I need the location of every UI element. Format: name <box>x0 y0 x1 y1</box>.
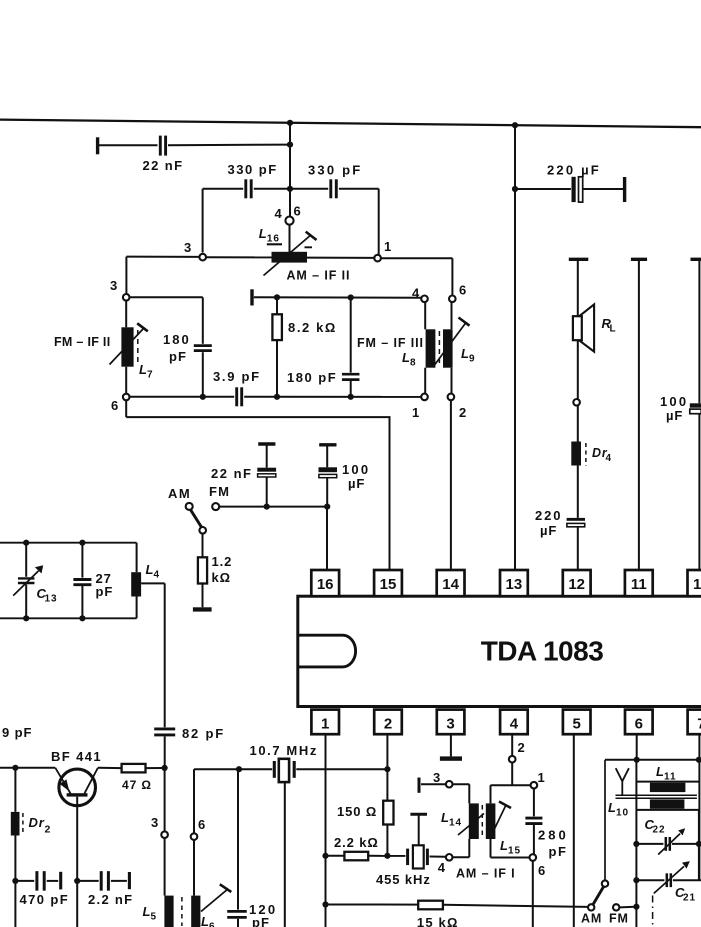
svg-text:BF 441: BF 441 <box>51 749 102 764</box>
svg-text:3.9 pF: 3.9 pF <box>213 369 261 384</box>
svg-text:6: 6 <box>198 817 206 832</box>
svg-text:3: 3 <box>151 815 159 830</box>
svg-text:21: 21 <box>683 893 696 904</box>
svg-text:100: 100 <box>342 462 370 477</box>
svg-text:150 Ω: 150 Ω <box>337 804 377 819</box>
svg-text:14: 14 <box>449 818 462 829</box>
svg-text:15 kΩ: 15 kΩ <box>417 915 459 927</box>
svg-text:9 pF: 9 pF <box>2 725 32 740</box>
svg-text:L: L <box>610 324 617 335</box>
svg-text:pF: pF <box>549 844 568 859</box>
svg-text:5: 5 <box>151 912 157 923</box>
svg-text:15: 15 <box>508 846 521 857</box>
svg-text:6: 6 <box>111 398 119 413</box>
svg-text:280: 280 <box>538 828 569 843</box>
svg-text:µF: µF <box>540 523 557 538</box>
svg-text:FM: FM <box>609 912 629 926</box>
svg-text:330 pF: 330 pF <box>308 163 362 178</box>
svg-text:11: 11 <box>664 772 676 783</box>
svg-text:2: 2 <box>518 740 526 755</box>
svg-text:3: 3 <box>110 278 118 293</box>
svg-text:4: 4 <box>154 570 160 581</box>
svg-text:2.2 nF: 2.2 nF <box>88 892 133 907</box>
svg-text:6: 6 <box>209 922 215 927</box>
svg-text:180 pF: 180 pF <box>287 370 337 385</box>
svg-text:6: 6 <box>538 863 546 878</box>
svg-text:2: 2 <box>459 405 467 420</box>
svg-text:8.2 kΩ: 8.2 kΩ <box>288 320 337 335</box>
svg-text:AM: AM <box>168 486 191 501</box>
svg-text:pF: pF <box>169 349 187 364</box>
svg-text:22: 22 <box>653 825 666 836</box>
svg-text:6: 6 <box>294 204 302 219</box>
svg-text:10: 10 <box>616 808 629 819</box>
svg-text:7: 7 <box>697 716 701 733</box>
svg-text:100: 100 <box>660 394 688 409</box>
svg-text:180: 180 <box>163 332 191 347</box>
svg-text:4: 4 <box>606 453 612 464</box>
svg-text:3: 3 <box>184 240 192 255</box>
svg-text:1: 1 <box>321 716 329 733</box>
svg-text:13: 13 <box>506 576 523 593</box>
svg-text:µF: µF <box>348 476 365 491</box>
svg-text:FM – IF II: FM – IF II <box>54 335 110 349</box>
svg-text:Dr: Dr <box>29 815 45 830</box>
svg-text:22 nF: 22 nF <box>143 158 184 173</box>
svg-text:AM – IF I: AM – IF I <box>456 867 516 881</box>
svg-text:11: 11 <box>631 576 647 593</box>
svg-text:2: 2 <box>45 824 52 836</box>
svg-text:220: 220 <box>535 508 562 523</box>
svg-text:5: 5 <box>573 716 581 733</box>
svg-text:2.2 kΩ: 2.2 kΩ <box>334 835 379 850</box>
svg-text:12: 12 <box>568 576 585 593</box>
svg-text:pF: pF <box>96 584 114 599</box>
svg-text:6: 6 <box>635 716 643 733</box>
svg-text:14: 14 <box>442 576 459 593</box>
svg-text:1.2: 1.2 <box>212 554 233 569</box>
svg-text:2: 2 <box>384 716 392 733</box>
svg-text:µF: µF <box>666 408 683 423</box>
svg-text:455 kHz: 455 kHz <box>376 872 431 887</box>
svg-text:6: 6 <box>459 283 467 298</box>
svg-text:7: 7 <box>147 370 153 381</box>
svg-text:pF: pF <box>252 915 270 927</box>
svg-text:1: 1 <box>412 405 420 420</box>
svg-text:TDA 1083: TDA 1083 <box>481 635 604 666</box>
svg-text:8: 8 <box>410 358 416 369</box>
svg-text:13: 13 <box>45 594 58 605</box>
svg-text:AM – IF II: AM – IF II <box>287 269 351 283</box>
svg-text:4: 4 <box>412 286 420 301</box>
svg-text:47 Ω: 47 Ω <box>122 778 152 792</box>
svg-text:4: 4 <box>510 716 519 733</box>
svg-text:4: 4 <box>275 206 283 221</box>
svg-text:FM: FM <box>209 484 230 499</box>
svg-text:15: 15 <box>380 576 397 593</box>
svg-text:82 pF: 82 pF <box>182 726 225 741</box>
svg-text:470 pF: 470 pF <box>20 892 70 907</box>
svg-text:16: 16 <box>267 234 280 245</box>
svg-text:FM – IF III: FM – IF III <box>357 336 424 350</box>
svg-text:9: 9 <box>469 354 475 365</box>
svg-text:16: 16 <box>317 576 334 593</box>
svg-text:1: 1 <box>384 239 392 254</box>
svg-text:330 pF: 330 pF <box>228 162 278 177</box>
svg-text:3: 3 <box>446 716 454 733</box>
svg-text:220 µF: 220 µF <box>547 163 601 178</box>
svg-text:AM: AM <box>581 912 602 926</box>
svg-text:10: 10 <box>693 576 701 593</box>
svg-text:4: 4 <box>438 860 446 875</box>
svg-text:1: 1 <box>538 770 546 785</box>
svg-text:10.7 MHz: 10.7 MHz <box>250 743 318 758</box>
svg-text:kΩ: kΩ <box>212 570 231 585</box>
svg-text:22 nF: 22 nF <box>211 466 252 481</box>
svg-text:3: 3 <box>433 770 441 785</box>
